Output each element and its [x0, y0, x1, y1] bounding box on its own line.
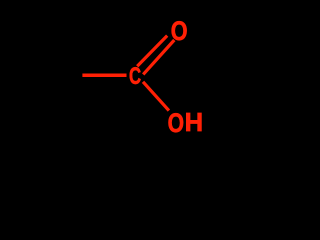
svg-text:O: O: [168, 109, 184, 139]
molecule: acetic acid skeletal structure, red on black: [0, 0, 204, 150]
wire: bond C=O lower line: [143, 40, 174, 74]
wire: bond C-OH: [143, 82, 169, 111]
wire: bond CH3-C (horizontal): [82, 73, 126, 77]
wire: bond C=O upper line: [137, 36, 167, 67]
svg-text:O: O: [171, 17, 188, 47]
svg-text:C: C: [129, 63, 141, 90]
svg-text:H: H: [185, 109, 203, 137]
